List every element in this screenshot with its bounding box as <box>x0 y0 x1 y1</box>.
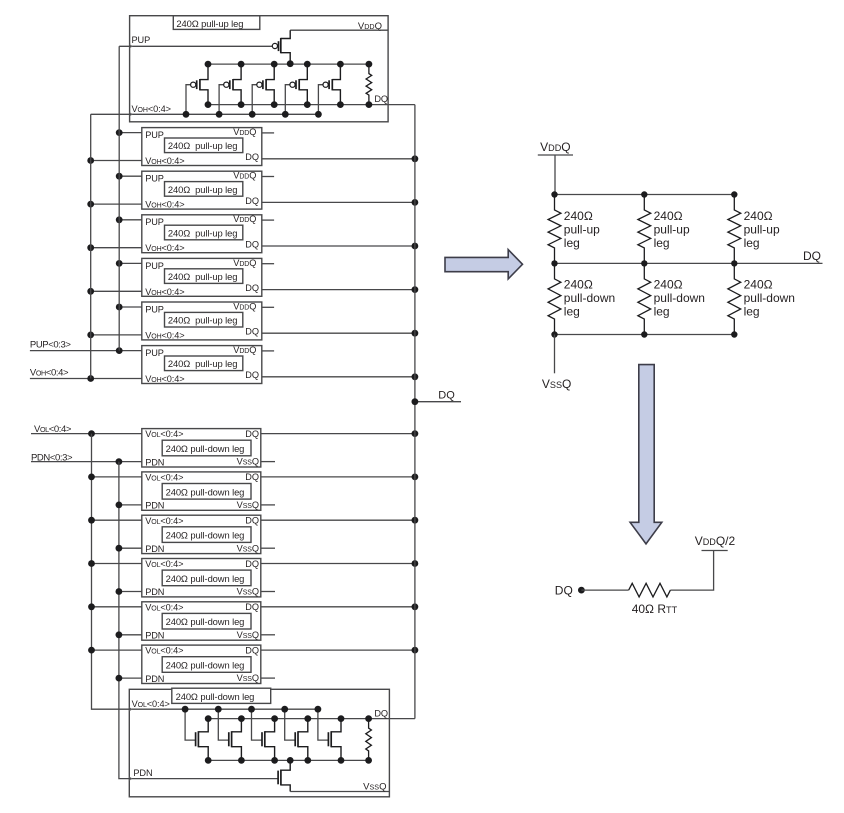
PDN<0:3> input wire <box>31 461 142 463</box>
junction dot on PUP bus <box>116 260 123 267</box>
junction dot on DQ bus <box>412 243 419 250</box>
VSSQ stub wire <box>261 634 275 636</box>
svg-text:DQ: DQ <box>245 602 259 612</box>
junction dots column 1 <box>551 191 557 197</box>
svg-text:40Ω RTT: 40Ω RTT <box>632 602 678 616</box>
label box: 240 ohm pull-up leg <box>173 16 259 30</box>
svg-text:PDN: PDN <box>145 457 164 467</box>
junction dot on DQ bus <box>412 474 419 481</box>
inner label box: 240 ohm pull-down leg <box>162 484 251 500</box>
nMOS leg transistor N4 <box>318 709 341 760</box>
inner label box: 240 ohm pull-down leg <box>162 440 251 456</box>
junction dot DQ output <box>412 398 419 405</box>
svg-text:PDN: PDN <box>145 501 164 511</box>
ODT termination circuit <box>555 534 736 616</box>
DQ line wire <box>555 262 823 264</box>
svg-text:pull-down: pull-down <box>744 291 795 305</box>
svg-text:VDDQ: VDDQ <box>540 140 571 154</box>
PUP wire from PUP bus <box>119 219 142 221</box>
junction dot on PUP bus <box>116 173 123 180</box>
junction dot on DQ bus <box>412 603 419 610</box>
nMOS leg transistor N2 <box>252 709 275 760</box>
240-ohm pull-down leg resistor 3 <box>728 263 741 334</box>
svg-text:leg: leg <box>744 236 760 250</box>
junction dot on PDN bus <box>116 545 123 552</box>
simplified driver diagram <box>538 140 823 391</box>
svg-text:DQ: DQ <box>245 472 259 482</box>
block outline <box>129 689 389 797</box>
junction dot on PDN bus <box>116 588 123 595</box>
DQ wire to DQ bus <box>262 376 415 378</box>
source rail wire <box>208 63 369 65</box>
240-ohm pull-down leg block 3 <box>88 515 418 554</box>
svg-text:240Ω pull-up leg: 240Ω pull-up leg <box>168 227 237 238</box>
VDDQ stub wire <box>262 132 274 134</box>
PUP gate wire <box>119 45 272 47</box>
PDN wire from PDN bus <box>119 634 142 636</box>
block outline <box>142 215 262 253</box>
junction dot on DQ bus <box>412 430 419 437</box>
VOL input pin marker <box>129 708 132 711</box>
VOL bus (vertical, into bottom block) <box>92 434 130 710</box>
VOH wire from VOH bus <box>91 334 142 336</box>
240-ohm pull-up leg block 3 <box>87 214 418 253</box>
svg-text:DQ: DQ <box>245 370 259 380</box>
svg-text:leg: leg <box>654 305 670 319</box>
junction dot on VOH bus <box>87 157 94 164</box>
junction dot on VOL bus <box>88 560 95 567</box>
block outline <box>142 171 262 209</box>
DQ wire to DQ bus <box>261 476 415 478</box>
nMOS leg transistor N0 <box>185 709 208 760</box>
nMOS leg transistor N1 <box>218 709 241 760</box>
svg-text:240Ω pull-down leg: 240Ω pull-down leg <box>166 443 245 454</box>
svg-text:PUP: PUP <box>145 261 164 271</box>
pMOS leg transistor P2 <box>252 64 274 114</box>
svg-text:pull-up: pull-up <box>654 222 690 236</box>
block outline <box>142 346 262 384</box>
svg-text:pull-down: pull-down <box>564 291 615 305</box>
svg-text:PUP: PUP <box>145 130 164 140</box>
svg-text:VOL<0:4>: VOL<0:4> <box>145 516 183 526</box>
nMOS leg transistor N3 <box>285 709 308 760</box>
junction dots N3 <box>281 706 288 713</box>
top rail wire <box>555 194 735 196</box>
big down arrow <box>630 365 662 544</box>
junction dot on PUP bus <box>116 216 123 223</box>
junction dots P1 <box>238 61 245 68</box>
pMOS leg transistor P1 <box>219 64 241 114</box>
junction dot on VOH bus <box>87 244 94 251</box>
svg-text:PUP: PUP <box>145 174 164 184</box>
svg-text:VSSQ: VSSQ <box>363 782 386 793</box>
junction dot on VOL bus <box>88 647 95 654</box>
PDN wire from PDN bus <box>119 547 142 549</box>
svg-text:PDN: PDN <box>145 544 164 554</box>
block outline <box>142 258 262 296</box>
junction dot on DQ bus <box>412 155 419 162</box>
svg-text:240Ω: 240Ω <box>654 209 683 223</box>
inner label box: 240 ohm pull-up leg <box>165 138 243 153</box>
DQ wire to DQ bus <box>262 158 415 160</box>
VSSQ tail wire <box>554 335 556 374</box>
DQ wire to DQ bus <box>261 563 415 565</box>
junction dot on VOL bus <box>88 474 95 481</box>
DQ rail wire (to DQ bus) <box>208 718 415 720</box>
block outline <box>130 16 389 122</box>
svg-text:240Ω pull-down leg: 240Ω pull-down leg <box>176 691 255 702</box>
junction dot PDN bus top <box>116 458 123 465</box>
junction dot on VOH bus <box>87 288 94 295</box>
svg-text:240Ω: 240Ω <box>744 277 773 291</box>
svg-text:240Ω: 240Ω <box>744 209 773 223</box>
junction dot on PDN bus <box>116 675 123 682</box>
svg-text:VOL<0:4>: VOL<0:4> <box>145 559 183 569</box>
PUP wire from PUP bus <box>119 306 142 308</box>
junction dot on DQ bus <box>412 330 419 337</box>
svg-text:PUP<0:3>: PUP<0:3> <box>30 339 71 350</box>
svg-text:PDN: PDN <box>145 674 164 684</box>
svg-text:VOL<0:4>: VOL<0:4> <box>145 429 183 439</box>
nMOS enable transistor (PDN) <box>278 760 290 791</box>
svg-text:240Ω: 240Ω <box>564 277 593 291</box>
PUP wire from PUP bus <box>119 175 142 177</box>
svg-text:leg: leg <box>564 305 580 319</box>
svg-text:VOH<0:4>: VOH<0:4> <box>145 287 184 297</box>
VDDQ stub wire <box>262 176 274 178</box>
svg-text:DQ: DQ <box>245 283 259 293</box>
junction dots column 3 <box>731 191 737 197</box>
junction dot PUP bus bottom <box>116 347 123 354</box>
svg-text:PUP: PUP <box>145 217 164 227</box>
pMOS leg transistor P4 <box>318 64 340 114</box>
inner label box: 240 ohm pull-down leg <box>162 657 251 673</box>
VOH wire from VOH bus <box>91 290 142 292</box>
VOH input pin marker <box>130 113 133 116</box>
junction dot on VOL bus <box>88 517 95 524</box>
PDN bus (vertical, into bottom block) <box>119 462 129 779</box>
junction dots P0 <box>205 61 212 68</box>
svg-text:240Ω pull-up leg: 240Ω pull-up leg <box>168 271 237 282</box>
svg-text:VSSQ: VSSQ <box>542 377 572 391</box>
VSSQ rail wire <box>290 791 389 793</box>
detailed 240-ohm pull-up leg block (top) <box>91 16 415 122</box>
240-ohm pull-down leg block 1 <box>142 429 419 468</box>
wire resistor to VDDQ/2 <box>670 551 713 591</box>
inner label box: 240 ohm pull-down leg <box>162 613 251 629</box>
inner label box: 240 ohm pull-up leg <box>165 312 243 327</box>
svg-text:240Ω pull-up leg: 240Ω pull-up leg <box>168 358 237 369</box>
DQ wire to DQ bus <box>262 245 415 247</box>
junction dot: enable FET drain on source rail <box>287 60 294 67</box>
svg-text:DQ: DQ <box>245 327 259 337</box>
svg-text:DQ: DQ <box>438 390 455 402</box>
junction dot on DQ bus <box>412 199 419 206</box>
block outline <box>142 645 261 683</box>
junction dot on PDN bus <box>116 631 123 638</box>
pMOS leg transistor P3 <box>285 64 307 114</box>
svg-text:DQ: DQ <box>245 516 259 526</box>
VOL wire from VOL bus <box>92 563 142 565</box>
240-ohm pull-down leg block 6 <box>88 645 418 684</box>
inner label box: 240 ohm pull-down leg <box>162 527 251 543</box>
DQ wire to DQ bus <box>262 289 415 291</box>
VOL wire from VOL bus <box>92 519 142 521</box>
svg-text:VOH<0:4>: VOH<0:4> <box>30 367 69 378</box>
svg-text:leg: leg <box>564 236 580 250</box>
240-ohm pull-up leg resistor 3 <box>728 195 741 264</box>
svg-text:pull-up: pull-up <box>744 222 780 236</box>
block outline <box>142 472 261 510</box>
240-ohm pull-down leg resistor 1 <box>548 263 561 334</box>
block outline <box>142 128 262 166</box>
VDDQ/2 supply symbol <box>702 550 728 552</box>
svg-text:VDDQ/2: VDDQ/2 <box>695 534 736 548</box>
DQ wire to DQ bus <box>261 606 415 608</box>
svg-text:240Ω: 240Ω <box>564 209 593 223</box>
240-ohm pull-up leg block 4 <box>87 258 418 297</box>
240-ohm pull-down leg resistor 2 <box>638 263 651 334</box>
svg-text:DQ: DQ <box>374 709 388 719</box>
VOL<0:4> input wire <box>31 433 142 435</box>
PUP wire from PUP bus <box>119 132 142 134</box>
svg-text:VOH<0:4>: VOH<0:4> <box>145 374 184 384</box>
DQ rail wire (to DQ bus) <box>208 104 415 106</box>
junction dot on DQ bus <box>412 517 419 524</box>
block outline <box>142 602 261 640</box>
svg-text:DQ: DQ <box>245 239 259 249</box>
240-ohm resistor of pull-down leg <box>366 719 372 761</box>
DQ wire to DQ bus <box>261 519 415 521</box>
svg-text:240Ω pull-down leg: 240Ω pull-down leg <box>166 573 245 584</box>
VSSQ stub wire <box>261 504 275 506</box>
svg-text:VOH<0:4>: VOH<0:4> <box>145 156 184 166</box>
240-ohm pull-up leg block 5 <box>87 301 418 340</box>
svg-text:DQ: DQ <box>245 645 259 655</box>
svg-text:240Ω pull-down leg: 240Ω pull-down leg <box>166 616 245 627</box>
block outline <box>142 515 261 553</box>
svg-text:PUP: PUP <box>132 35 151 45</box>
inner label box: 240 ohm pull-up leg <box>165 356 243 371</box>
VOH wire from VOH bus <box>91 203 142 205</box>
block outline <box>142 302 262 340</box>
junction dots N2 <box>248 706 255 713</box>
DQ wire to DQ bus <box>262 201 415 203</box>
240-ohm pull-up leg resistor 1 <box>548 195 561 264</box>
junction dot on PUP bus <box>116 304 123 311</box>
svg-text:VOH<0:4>: VOH<0:4> <box>145 243 184 253</box>
svg-text:VOL<0:4>: VOL<0:4> <box>145 602 183 612</box>
VOH wire from VOH bus <box>91 247 142 249</box>
VOL wire from VOL bus <box>92 606 142 608</box>
junction dots N1 <box>215 706 222 713</box>
VOH gate rail wire <box>91 113 319 115</box>
PDN input pin marker <box>129 777 132 780</box>
svg-text:240Ω pull-up leg: 240Ω pull-up leg <box>168 140 237 151</box>
DQ bus (vertical) <box>414 105 416 719</box>
240-ohm resistor of pull-up leg <box>366 64 372 105</box>
VSSQ stub wire <box>261 547 275 549</box>
junction dot on VOH bus <box>87 201 94 208</box>
svg-text:240Ω pull-up leg: 240Ω pull-up leg <box>168 184 237 195</box>
junction dot on VOL bus <box>88 603 95 610</box>
svg-text:DQ: DQ <box>245 429 259 439</box>
block outline <box>142 429 261 467</box>
VOL wire from VOL bus <box>92 649 142 651</box>
wire DQ to resistor <box>581 589 628 591</box>
junction dot on PDN bus <box>116 502 123 509</box>
svg-text:DQ: DQ <box>245 152 259 162</box>
junction dot resistor top <box>365 715 372 722</box>
DQ node dot <box>578 587 585 594</box>
VDDQ stub wire <box>262 350 274 352</box>
svg-text:240Ω pull-up leg: 240Ω pull-up leg <box>176 18 243 29</box>
inner label box: 240 ohm pull-up leg <box>165 269 243 284</box>
240-ohm pull-down leg block 5 <box>88 602 418 641</box>
inner label box: 240 ohm pull-up leg <box>165 225 243 240</box>
svg-text:PUP: PUP <box>145 304 164 314</box>
40-ohm Rtt resistor <box>629 583 671 597</box>
PUP input pin marker <box>130 45 133 48</box>
svg-text:pull-up: pull-up <box>564 222 600 236</box>
svg-text:240Ω pull-down leg: 240Ω pull-down leg <box>166 530 245 541</box>
VDDQ stub wire <box>262 219 274 221</box>
VOL wire from VOL bus <box>92 476 142 478</box>
block outline <box>142 559 261 597</box>
svg-text:DQ: DQ <box>245 559 259 569</box>
240-ohm pull-up leg block 6 <box>142 345 419 384</box>
junction dot VOH bus bottom <box>87 375 94 382</box>
svg-text:240Ω pull-down leg: 240Ω pull-down leg <box>166 660 245 671</box>
svg-text:DQ: DQ <box>245 196 259 206</box>
VDDQ rail wire <box>290 29 388 31</box>
svg-text:VOL<0:4>: VOL<0:4> <box>145 646 183 656</box>
junction dot resistor bottom <box>365 757 372 764</box>
DQ output stub wire <box>415 401 461 403</box>
detailed 240-ohm pull-down leg block (bottom) <box>129 688 415 797</box>
svg-text:leg: leg <box>744 305 760 319</box>
VOH wire from VOH bus <box>91 160 142 162</box>
VOH<0:4> input wire <box>30 378 142 380</box>
svg-text:VOL<0:4>: VOL<0:4> <box>145 473 183 483</box>
PUP<0:3> input wire <box>30 350 142 352</box>
PDN wire from PDN bus <box>119 677 142 679</box>
svg-text:leg: leg <box>654 236 670 250</box>
junction dot VOL bus top <box>88 430 95 437</box>
label box: 240 ohm pull-down leg <box>172 688 271 703</box>
junction dot on DQ bus <box>412 647 419 654</box>
junction dots column 2 <box>641 191 647 197</box>
svg-text:240Ω: 240Ω <box>654 277 683 291</box>
big right arrow <box>445 250 523 279</box>
svg-text:PDN: PDN <box>145 587 164 597</box>
svg-text:DQ: DQ <box>803 249 821 263</box>
svg-text:VOH<0:4>: VOH<0:4> <box>145 200 184 210</box>
VDDQ stub wire <box>262 263 274 265</box>
junction dot resistor top <box>366 61 373 68</box>
junction dots P4 <box>337 61 344 68</box>
VOH bus (vertical) <box>90 114 92 378</box>
svg-text:VOH<0:4>: VOH<0:4> <box>132 104 171 114</box>
svg-text:DQ: DQ <box>374 94 388 104</box>
DQ wire to DQ bus <box>261 433 415 435</box>
240-ohm pull-down leg block 2 <box>88 472 418 511</box>
240-ohm pull-down leg block 4 <box>88 559 418 598</box>
DQ wire to DQ bus <box>262 332 415 334</box>
svg-text:PDN: PDN <box>133 768 152 778</box>
svg-text:VOH<0:4>: VOH<0:4> <box>145 330 184 340</box>
240-ohm pull-up leg block 2 <box>87 171 418 210</box>
PUP bus (vertical) <box>118 46 120 350</box>
junction dot on DQ bus <box>412 560 419 567</box>
VSSQ stub wire <box>261 677 275 679</box>
junction dots P2 <box>271 61 278 68</box>
svg-text:240Ω pull-down leg: 240Ω pull-down leg <box>166 486 245 497</box>
VSSQ stub wire <box>261 591 275 593</box>
VSSQ stub wire <box>261 461 275 463</box>
240-ohm pull-up leg resistor 2 <box>638 195 651 264</box>
inner label box: 240 ohm pull-up leg <box>165 182 243 197</box>
VDDQ stub wire <box>262 306 274 308</box>
junction dot on PUP bus <box>116 129 123 136</box>
svg-text:DQ: DQ <box>555 583 573 597</box>
inner label box: 240 ohm pull-down leg <box>162 570 251 586</box>
240-ohm pull-up leg block 1 <box>87 127 418 166</box>
PDN wire from PDN bus <box>119 504 142 506</box>
PDN gate wire <box>129 778 278 780</box>
VOL gate rail wire <box>129 708 318 710</box>
junction dot: enable FET on drain rail <box>287 757 294 764</box>
PDN wire from PDN bus <box>119 591 142 593</box>
svg-text:240Ω pull-up leg: 240Ω pull-up leg <box>168 315 237 326</box>
svg-text:pull-down: pull-down <box>654 291 705 305</box>
drain rail wire <box>208 759 368 761</box>
DQ wire to DQ bus <box>261 649 415 651</box>
pMOS enable transistor (PUP) <box>272 30 290 64</box>
junction dots N0 <box>182 706 189 713</box>
PUP wire from PUP bus <box>119 262 142 264</box>
svg-text:VOL<0:4>: VOL<0:4> <box>132 699 170 709</box>
junction dot on VOH bus <box>87 332 94 339</box>
junction dots N4 <box>315 706 322 713</box>
junction dots P3 <box>304 61 311 68</box>
svg-text:PDN: PDN <box>145 631 164 641</box>
pMOS leg transistor P0 <box>186 64 208 114</box>
junction dot resistor bottom <box>366 101 373 108</box>
junction dot on DQ bus <box>412 373 419 380</box>
svg-text:PUP: PUP <box>145 348 164 358</box>
junction dot on DQ bus <box>412 286 419 293</box>
bottom rail wire <box>555 334 735 336</box>
